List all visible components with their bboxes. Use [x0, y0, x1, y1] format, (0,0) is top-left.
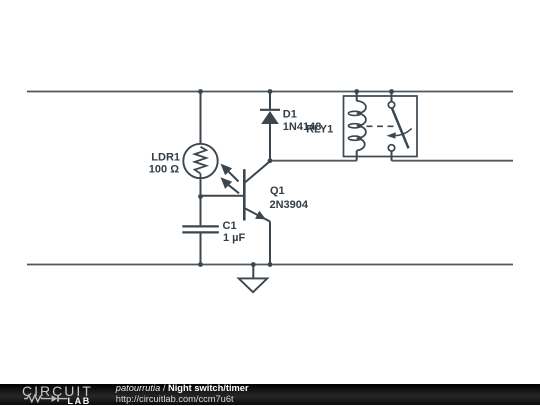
node top-switch: [389, 89, 394, 94]
svg-text:1 µF: 1 µF: [223, 232, 246, 244]
diode D1: [260, 110, 280, 124]
wire bottom rail: [27, 264, 513, 266]
node bottom-C1: [198, 262, 203, 267]
actuation dashed link: [367, 125, 396, 127]
wire middle rail right segment: [392, 160, 514, 162]
capacitor C1: [182, 226, 219, 232]
footer title: [116, 382, 249, 394]
wire D1 to middle node: [269, 124, 271, 161]
LDR light arrow lower: [221, 177, 240, 193]
svg-text:100 Ω: 100 Ω: [149, 164, 179, 176]
switch stub bottom: [391, 151, 393, 161]
coil: [357, 101, 366, 151]
wire Q1 emitter to bottom rail: [269, 222, 271, 265]
footer url: [116, 393, 234, 405]
switch stub top: [391, 92, 393, 102]
wire middle rail left segment: [270, 160, 357, 162]
node top-LDR: [198, 89, 203, 94]
svg-text:Q1: Q1: [270, 185, 285, 197]
wire node A to C1: [200, 197, 202, 226]
LDR light arrow upper: [221, 164, 239, 182]
switch blade: [392, 109, 408, 149]
transistor Q1: [244, 161, 270, 221]
node top-D1: [268, 89, 273, 94]
svg-text:D1: D1: [283, 109, 297, 121]
wire LDR branch from top rail: [200, 92, 202, 145]
svg-text:LDR1: LDR1: [151, 151, 180, 163]
wire C1 to bottom rail: [200, 234, 202, 265]
svg-text:C1: C1: [223, 220, 237, 232]
node top-coil: [354, 89, 359, 94]
switch contact bottom: [388, 145, 394, 151]
switch contact top: [388, 102, 394, 108]
coil stub top: [356, 92, 358, 102]
svg-text:RLY1: RLY1: [306, 124, 333, 136]
actuation arrow: [394, 129, 412, 136]
diode D1 wire from top rail: [269, 92, 271, 111]
ground: [239, 265, 268, 293]
svg-text:2N3904: 2N3904: [270, 199, 309, 211]
node bottom-ground: [251, 262, 256, 267]
wire top rail: [27, 91, 513, 93]
coil stub bottom: [356, 151, 358, 161]
wire LDR to node A: [200, 178, 202, 196]
CircuitLab logo: [22, 384, 93, 398]
LDR1 photoresistor: [183, 144, 217, 178]
node middle D1/collector: [268, 158, 273, 163]
node bottom-emitter: [268, 262, 273, 267]
relay RLY1: [344, 92, 418, 161]
junction dots: [198, 89, 394, 267]
wire base: node A to Q1 base: [201, 195, 244, 197]
node A LDR/C1/base: [198, 194, 203, 199]
